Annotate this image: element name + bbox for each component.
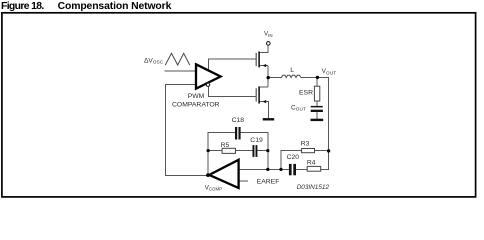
svg-text:Compensation Network: Compensation Network [58,1,172,12]
svg-text:C18: C18 [232,117,245,124]
svg-text:C19: C19 [250,137,263,144]
svg-text:C20: C20 [287,154,300,161]
svg-text:EAREF: EAREF [257,178,280,185]
svg-text:COMPARATOR: COMPARATOR [172,101,220,108]
svg-text:R3: R3 [301,141,310,148]
svg-text:PWM: PWM [188,93,205,100]
svg-text:R5: R5 [221,142,230,149]
svg-text:ESR: ESR [299,89,313,96]
svg-text:L: L [290,67,294,74]
svg-text:R4: R4 [307,160,316,167]
svg-text:Figure 18.: Figure 18. [1,1,44,12]
svg-text:D03IN1512: D03IN1512 [297,184,330,191]
